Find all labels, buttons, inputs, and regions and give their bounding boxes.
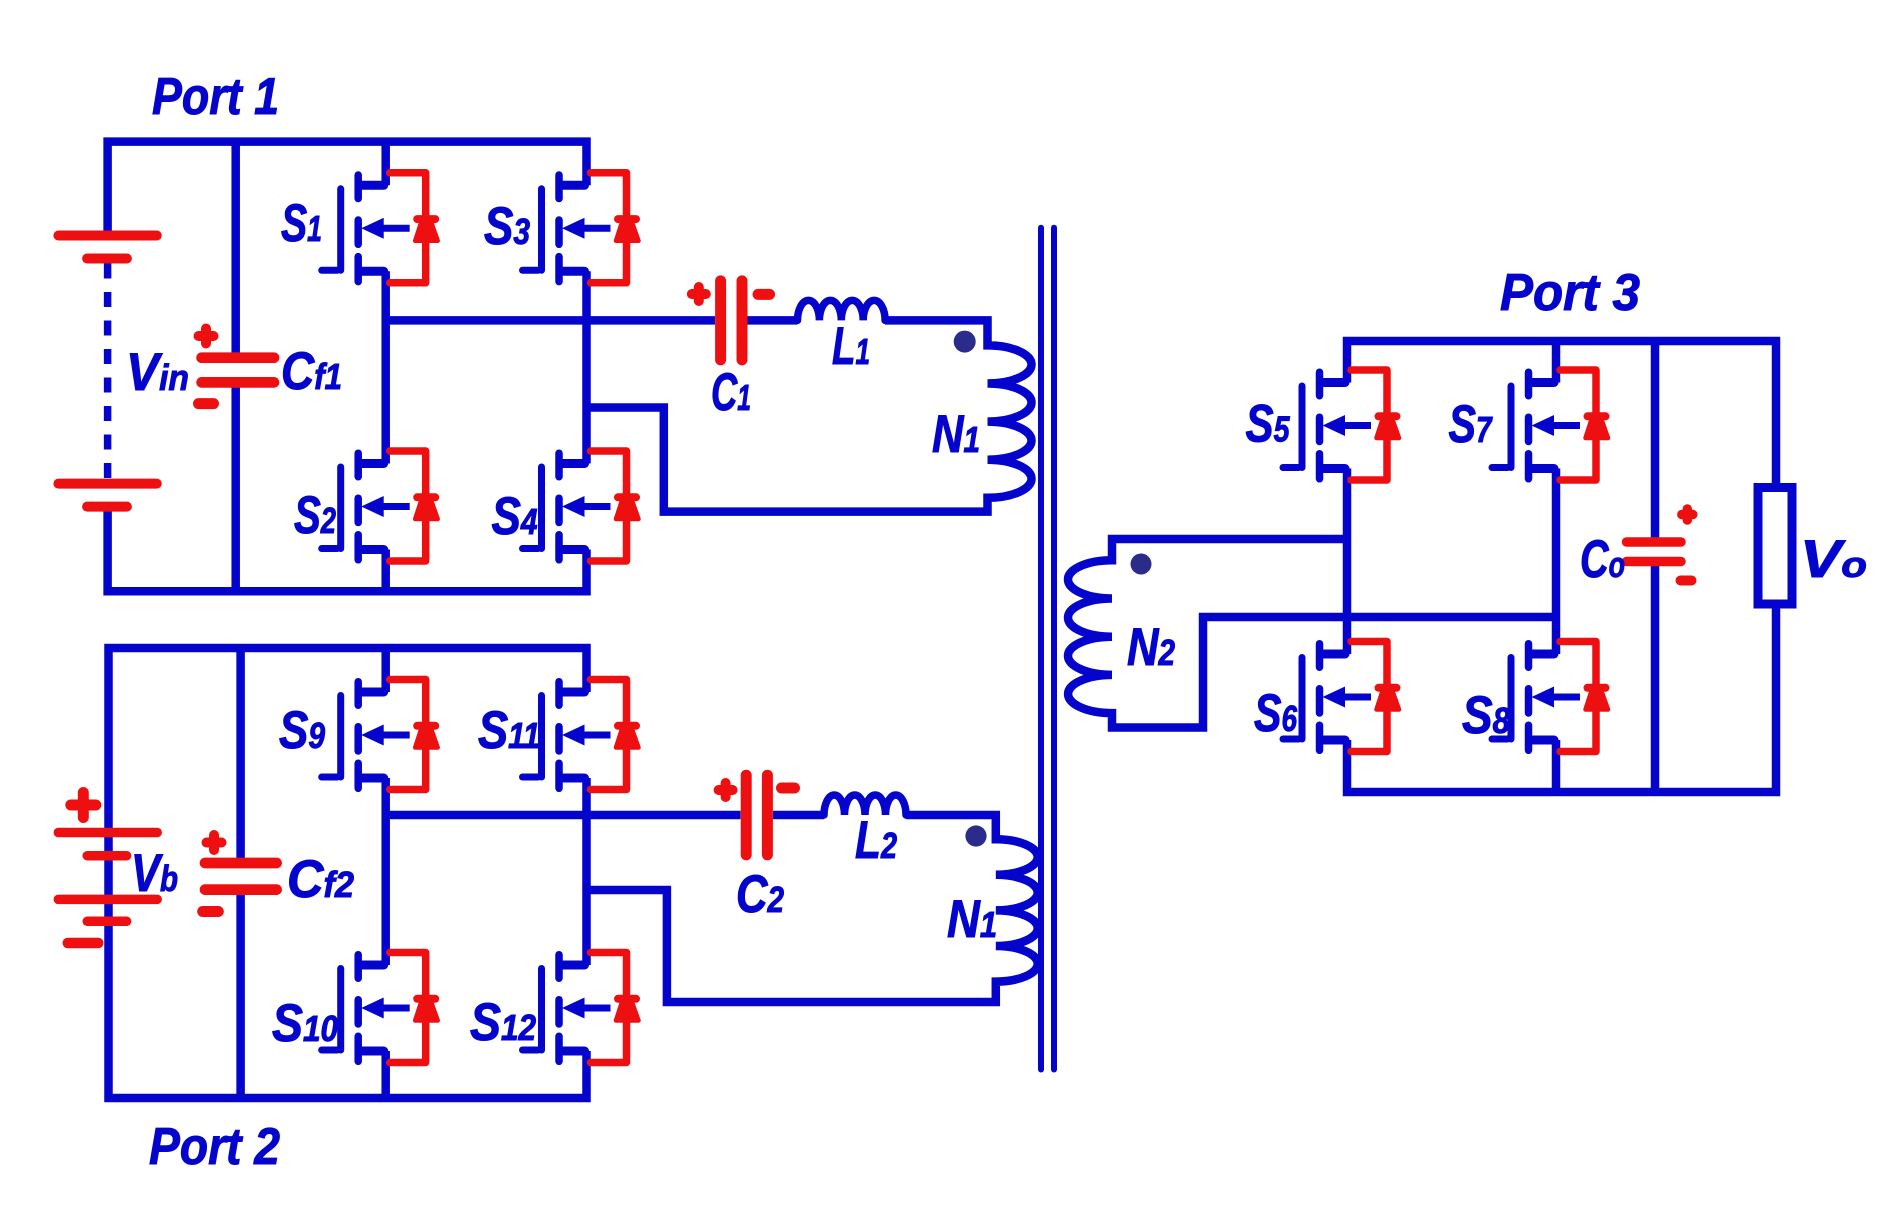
capacitor Cf1: [199, 329, 275, 404]
wire: Cf1 branch lower: [231, 387, 240, 591]
battery Vin (dashed cell link): [104, 264, 112, 479]
svg-text:N2: N2: [1127, 618, 1175, 677]
wire: C1 to L1: [748, 316, 798, 325]
body diode of S9: [390, 680, 438, 790]
svg-text:S3: S3: [484, 197, 530, 256]
wire: Co branch lower: [1651, 566, 1660, 792]
capacitor Co: [1627, 509, 1693, 581]
svg-text:N1: N1: [932, 405, 980, 464]
winding N2 (secondary) with wires to Port3 bridge: [1068, 539, 1556, 728]
svg-text:S12: S12: [470, 993, 536, 1052]
transistor S5: [1283, 372, 1371, 479]
svg-text:L1: L1: [832, 317, 870, 376]
body diode of S5: [1351, 370, 1399, 480]
svg-text:Port 2: Port 2: [149, 1118, 280, 1176]
transistor S6: [1283, 644, 1371, 751]
transistor S11: [523, 682, 611, 789]
body diode of S6: [1351, 642, 1399, 752]
svg-text:S8: S8: [1462, 686, 1510, 745]
transistor S2: [322, 453, 410, 560]
body diode of S7: [1560, 370, 1608, 480]
wire: Port1 right leg middle (S3 source to S4 drain): [582, 271, 591, 463]
svg-text:Cf1: Cf1: [281, 342, 342, 401]
wire: Port2 left leg top stub (S9 drain): [381, 648, 390, 692]
inductor L1: [798, 300, 886, 320]
battery Vb plates: [58, 793, 157, 944]
svg-text:C2: C2: [736, 865, 784, 924]
wire: Port3 right leg middle (S7 source to S8 drain): [1552, 469, 1561, 655]
wire: Cf2 branch upper: [236, 648, 245, 859]
transistor S7: [1492, 372, 1580, 479]
body diode of S1: [390, 173, 438, 283]
svg-text:Vin: Vin: [126, 343, 189, 402]
wire: Port1 bridge midpoint to C1: [386, 316, 715, 325]
svg-text:S7: S7: [1449, 395, 1494, 454]
transistor S1: [322, 175, 410, 282]
capacitor C1: [692, 281, 770, 360]
wire: Port3 right leg bottom stub (S8 source): [1552, 740, 1561, 792]
capacitor Cf2: [203, 835, 277, 912]
resistor load Vo: [1758, 488, 1792, 605]
wire: Port2 left leg middle (S9 source to S10 drain): [381, 778, 390, 965]
body diode of S8: [1560, 642, 1608, 752]
winding N1 (bottom primary) with return wire to S11/S12 midpoint: [587, 815, 1038, 1002]
transistor S10: [322, 955, 410, 1062]
wire: Port1 top rail, left branch top, right leg to S3 drain: [108, 142, 587, 232]
body diode of S3: [591, 173, 639, 283]
wire: Port2 bridge midpoint to C2: [386, 811, 741, 820]
svg-text:Port 3: Port 3: [1500, 264, 1640, 322]
wire: C2 to L2: [773, 811, 824, 820]
body diode of S10: [390, 953, 438, 1063]
svg-text:S10: S10: [272, 994, 338, 1053]
body diode of S12: [591, 953, 639, 1063]
body diode of S4: [591, 451, 639, 561]
svg-text:C1: C1: [711, 363, 751, 422]
transistor S4: [523, 453, 611, 560]
polarity dot of N1 top: [954, 331, 976, 353]
wire: Port1 left leg bottom stub (S2 source): [381, 550, 390, 592]
wire: Cf2 branch lower: [236, 894, 245, 1099]
transformer core line 2: [1051, 228, 1057, 1070]
wire: Port2 left leg bottom stub (S10 source): [381, 1051, 390, 1098]
svg-text:Vo: Vo: [1800, 530, 1867, 589]
wire: Port1 bottom-left branch, bottom rail, right leg from S4 source: [108, 512, 587, 592]
svg-text:S5: S5: [1246, 395, 1291, 454]
svg-text:S6: S6: [1254, 684, 1298, 743]
svg-text:S1: S1: [281, 194, 322, 253]
transistor S9: [322, 682, 410, 789]
svg-text:S4: S4: [492, 487, 538, 546]
wire: Port3 bottom rail with Vo branch bottom: [1347, 603, 1776, 793]
body diode of S11: [591, 680, 639, 790]
wire: Port1 left leg middle (S1 source to S2 drain, node A): [381, 271, 390, 463]
svg-text:L2: L2: [855, 811, 897, 870]
wire: Port2 outer loop (top rail, left branch, bottom rail, right leg stubs): [109, 648, 587, 1098]
polarity dot of N1 bottom: [965, 825, 986, 846]
polarity dot of N2: [1131, 554, 1152, 575]
capacitor C2: [719, 775, 795, 855]
svg-text:Cf2: Cf2: [287, 850, 354, 909]
svg-text:Co: Co: [1580, 530, 1625, 589]
winding N1 (top primary) with return wire to S3/S4 midpoint: [587, 320, 1032, 511]
body diode of S2: [390, 451, 438, 561]
wire: Port3 left leg middle (S5 source to S6 drain): [1343, 469, 1352, 655]
transistor S3: [523, 175, 611, 282]
transformer core line 1: [1038, 228, 1044, 1070]
svg-text:S2: S2: [294, 486, 336, 545]
svg-text:S11: S11: [478, 701, 540, 760]
transistor S8: [1492, 644, 1580, 751]
wire: Port1 left leg top stub (S1 drain): [381, 142, 390, 186]
wire: Co branch upper: [1651, 341, 1660, 538]
wire: Port2 right leg middle (S11 source to S12 drain): [582, 778, 591, 965]
wire: Port3 right leg top stub (S7 drain): [1552, 341, 1561, 383]
transistor S12: [523, 955, 611, 1062]
svg-text:Port 1: Port 1: [152, 68, 279, 126]
battery Vin plates: [58, 236, 156, 507]
svg-text:N1: N1: [947, 890, 997, 949]
inductor L2: [824, 795, 906, 815]
wire: Cf1 branch upper: [231, 142, 240, 353]
svg-text:S9: S9: [279, 701, 325, 760]
wire: Port3 top rail with legs stubs and Vo branch top: [1347, 341, 1776, 490]
svg-text:Vb: Vb: [131, 844, 178, 903]
